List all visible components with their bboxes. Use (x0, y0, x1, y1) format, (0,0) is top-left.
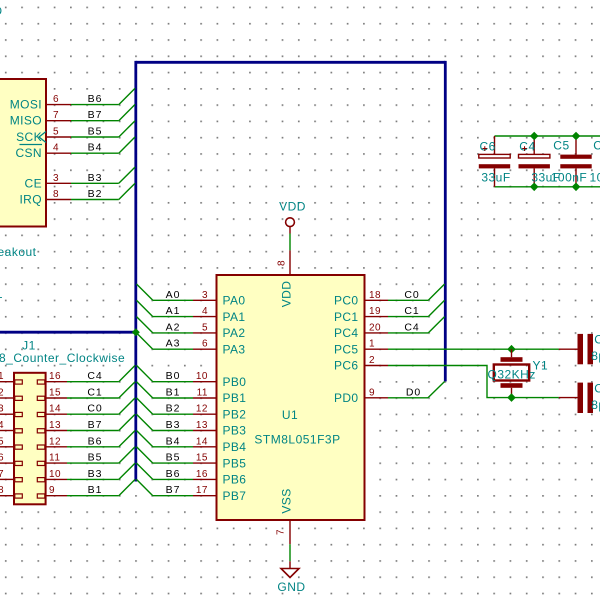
pin 11 PB1 of U1 with wire/net B1 (137, 382, 247, 406)
svg-text:16: 16 (196, 469, 208, 480)
svg-text:B3: B3 (166, 419, 181, 431)
svg-text:C5: C5 (553, 139, 569, 153)
svg-text:11: 11 (197, 388, 208, 399)
svg-text:5: 5 (0, 436, 4, 447)
svg-text:100nF: 100nF (551, 171, 588, 185)
svg-text:3: 3 (53, 173, 59, 184)
svg-text:10: 10 (196, 371, 208, 382)
svg-text:9: 9 (369, 387, 375, 398)
svg-text:15: 15 (49, 388, 61, 399)
pin 16 PB6 of U1 with wire/net B6 (137, 463, 247, 487)
pin 12 PB2 of U1 with wire/net B2 (137, 398, 247, 422)
svg-text:B7: B7 (88, 109, 103, 121)
pin 4 CSN of J2 with wire/net B4 (15, 137, 135, 160)
svg-text:8pF: 8pF (591, 349, 600, 363)
wire cap-bank top rail (495, 135, 600, 137)
svg-text:VDD: VDD (279, 200, 306, 214)
svg-text:16: 16 (49, 371, 61, 382)
svg-text:C4: C4 (87, 370, 102, 382)
svg-text:A3: A3 (166, 338, 181, 350)
svg-text:Q32KHz: Q32KHz (488, 368, 536, 382)
svg-text:8: 8 (53, 189, 59, 200)
pin 2 of J1 (left, cut) (0, 388, 22, 401)
connector J1 (14, 373, 46, 505)
pin 12 of J1 with wire/net B6 (37, 431, 135, 450)
svg-text:+: + (482, 144, 488, 155)
pin 3 of J1 (left, cut) (0, 404, 22, 417)
pin 16 of J1 with wire/net C4 (37, 365, 135, 384)
svg-text:PB5: PB5 (223, 456, 247, 470)
pin 15 of J1 with wire/net C1 (37, 382, 135, 401)
junction C4 top (530, 132, 539, 141)
svg-text:STM8L051F3P: STM8L051F3P (254, 433, 340, 447)
svg-text:14: 14 (49, 404, 61, 415)
svg-text:PB0: PB0 (223, 375, 247, 389)
pin 15 PB5 of U1 with wire/net B5 (137, 447, 247, 471)
svg-text:7: 7 (276, 529, 287, 535)
svg-text:GND: GND (277, 580, 305, 594)
pin 6 PA3 of U1 with wire/net A3 (137, 333, 246, 357)
junction C5 top (572, 132, 581, 141)
connector J2 RF-module breakout (cut off at left edge) (0, 79, 46, 227)
svg-text:4: 4 (53, 143, 59, 154)
svg-text:6: 6 (53, 94, 59, 105)
pin 14 of J1 with wire/net C0 (37, 398, 135, 417)
crystal Y1 Q32KHz (488, 349, 549, 397)
svg-text:B5: B5 (88, 452, 103, 464)
svg-text:B7: B7 (88, 419, 103, 431)
capacitor C3 8pF (cut at right edge) (559, 382, 600, 414)
pin 11 of J1 with wire/net B5 (37, 447, 135, 466)
svg-text:6: 6 (202, 339, 208, 350)
junction C4 bottom (530, 183, 539, 192)
U1 value STM8L051F3P (254, 433, 340, 447)
svg-text:100nF: 100nF (590, 171, 600, 185)
pin 17 PB7 of U1 with wire/net B7 (137, 479, 247, 503)
capacitor C4 33uF (519, 136, 561, 187)
svg-text:PC4: PC4 (334, 326, 359, 340)
svg-text:33uF: 33uF (481, 171, 510, 185)
svg-text:B6: B6 (88, 93, 103, 105)
pin 18 PC0 of U1 with wire/net C0 (334, 284, 445, 308)
capacitor C6 33uF (479, 136, 511, 187)
svg-text:MISO: MISO (10, 114, 42, 128)
pin 19 PC1 of U1 with wire/net C1 (334, 300, 445, 324)
svg-text:8_Counter_Clockwise: 8_Counter_Clockwise (0, 351, 125, 365)
svg-text:17: 17 (196, 485, 208, 496)
svg-text:B2: B2 (88, 188, 103, 200)
pin 4 PA1 of U1 with wire/net A1 (137, 300, 246, 324)
svg-text:B1: B1 (88, 484, 103, 496)
svg-text:13: 13 (49, 420, 61, 431)
capacitor C2 8pF (cut at right edge) (559, 333, 600, 365)
svg-text:C1: C1 (87, 387, 102, 399)
svg-text:B3: B3 (88, 468, 103, 480)
svg-text:10: 10 (49, 469, 61, 480)
bus: branch to left edge (0, 331, 136, 334)
svg-text:B3: B3 (88, 172, 103, 184)
svg-text:B7: B7 (166, 484, 181, 496)
pin 9 of J1 with wire/net B1 (37, 479, 135, 498)
pin 1 PC5 of U1, wire to crystal (334, 339, 559, 357)
svg-text:CE: CE (25, 176, 42, 190)
svg-text:1: 1 (369, 339, 375, 350)
pin 4 of J1 (left, cut) (0, 420, 22, 433)
pin 8 VDD of U1 (277, 250, 294, 307)
svg-text:VDD: VDD (280, 281, 294, 308)
pin 6 MOSI of J2 with wire/net B6 (10, 88, 135, 111)
svg-text:C0: C0 (404, 289, 419, 301)
svg-text:PA0: PA0 (223, 294, 246, 308)
svg-text:15: 15 (196, 453, 208, 464)
clock mark on SCK pin (39, 132, 46, 143)
pin 3 CE of J2 with wire/net B3 (25, 167, 136, 190)
pin 7 VSS of U1 (276, 488, 294, 544)
svg-text:2: 2 (369, 355, 375, 366)
pin 6 of J1 (left, cut) (0, 453, 22, 466)
J1 reference (22, 339, 36, 353)
wire cap-bank bottom rail (495, 186, 600, 188)
svg-text:PA3: PA3 (223, 342, 246, 356)
svg-text:7: 7 (0, 469, 4, 480)
svg-text:B1: B1 (166, 387, 181, 399)
svg-text:8: 8 (0, 485, 4, 496)
svg-text:B4: B4 (166, 435, 181, 447)
svg-text:5: 5 (53, 127, 59, 138)
pin 14 PB4 of U1 with wire/net B4 (137, 431, 247, 455)
svg-text:MOSI: MOSI (10, 98, 42, 112)
pin 8 IRQ of J2 with wire/net B2 (19, 183, 135, 206)
pin 10 of J1 with wire/net B3 (37, 463, 135, 482)
svg-text:IRQ: IRQ (19, 193, 42, 207)
svg-text:PB1: PB1 (223, 391, 247, 405)
pin 13 of J1 with wire/net B7 (37, 414, 135, 433)
pin 5 SCK of J2 with wire/net B5 (16, 121, 135, 144)
svg-text:PD0: PD0 (334, 391, 359, 405)
svg-text:4: 4 (202, 306, 208, 317)
svg-text:2: 2 (0, 388, 4, 399)
svg-text:D: D (0, 4, 3, 18)
svg-text:11: 11 (49, 453, 60, 464)
svg-text:PA2: PA2 (223, 326, 246, 340)
svg-text:B6: B6 (88, 435, 103, 447)
J2 value text Breakout (cut) (0, 245, 37, 259)
svg-text:3: 3 (0, 404, 4, 415)
pin 8 of J1 (left, cut) (0, 485, 22, 498)
svg-text:PB3: PB3 (223, 424, 247, 438)
svg-text:C4: C4 (404, 321, 419, 333)
pin 3 PA0 of U1 with wire/net A0 (137, 284, 246, 308)
svg-text:14: 14 (196, 436, 208, 447)
svg-text:B6: B6 (166, 468, 181, 480)
svg-text:B4: B4 (88, 142, 103, 154)
svg-text:5: 5 (202, 322, 208, 333)
svg-text:CSN: CSN (15, 146, 42, 160)
svg-text:PB4: PB4 (223, 440, 247, 454)
pin 9 PD0 of U1 with wire/net D0 (334, 382, 445, 406)
wire VDD to U1 pin 8 (289, 234, 291, 251)
svg-text:12: 12 (196, 404, 208, 415)
junction crystal top (507, 345, 516, 354)
bus: main data bus (136, 61, 446, 482)
svg-text:19: 19 (369, 306, 381, 317)
pin 1 of J1 (left, cut) (0, 371, 22, 384)
svg-text:PB7: PB7 (223, 489, 247, 503)
overline of CSN pin name (20, 144, 43, 146)
leftover label fragment top-left corner (0, 4, 3, 18)
svg-text:Breakout: Breakout (0, 245, 37, 259)
pin 20 PC4 of U1 with wire/net C4 (334, 317, 445, 341)
pin 7 of J1 (left, cut) (0, 469, 22, 482)
svg-text:C2: C2 (594, 333, 600, 347)
U1 reference (282, 408, 298, 422)
svg-text:A2: A2 (166, 321, 181, 333)
svg-text:1: 1 (0, 287, 3, 301)
capacitor C? (cut off at right edge) (590, 139, 600, 185)
svg-text:PC5: PC5 (334, 342, 359, 356)
svg-text:4: 4 (0, 420, 4, 431)
svg-text:6: 6 (0, 453, 4, 464)
junction bus branch (132, 328, 140, 336)
svg-text:8pF: 8pF (591, 398, 600, 412)
svg-text:18: 18 (369, 290, 381, 301)
junction C5 bottom (572, 183, 581, 192)
svg-text:D0: D0 (406, 386, 421, 398)
J1 value 8_Counter_Clockwise (cut) (0, 351, 125, 365)
svg-text:B0: B0 (166, 370, 181, 382)
svg-text:C7: C7 (593, 139, 600, 153)
svg-text:B5: B5 (166, 452, 181, 464)
svg-text:VSS: VSS (280, 488, 294, 513)
svg-text:9: 9 (49, 485, 55, 496)
svg-text:+: + (522, 144, 528, 155)
svg-text:PC0: PC0 (334, 294, 359, 308)
svg-text:7: 7 (53, 110, 59, 121)
pin 10 PB0 of U1 with wire/net B0 (137, 365, 247, 389)
capacitor C5 100nF (551, 136, 592, 187)
svg-text:B2: B2 (166, 403, 181, 415)
svg-text:PA1: PA1 (223, 310, 246, 324)
svg-text:8: 8 (277, 260, 288, 266)
junction crystal bottom (507, 393, 516, 402)
svg-text:U1: U1 (282, 408, 298, 422)
svg-text:13: 13 (196, 420, 208, 431)
ground symbol GND (277, 561, 305, 594)
power flag VDD (279, 200, 306, 234)
svg-text:B5: B5 (88, 126, 103, 138)
pin 5 PA2 of U1 with wire/net A2 (137, 317, 246, 341)
mcu U1 STM8L051F3P body (217, 275, 365, 520)
leftover label fragment at left edge (0, 287, 3, 301)
svg-text:PB2: PB2 (223, 407, 247, 421)
svg-text:A1: A1 (166, 305, 181, 317)
svg-text:PB6: PB6 (223, 473, 247, 487)
svg-text:C0: C0 (87, 403, 102, 415)
svg-text:C3: C3 (594, 382, 600, 396)
svg-text:PC6: PC6 (334, 359, 359, 373)
pin 7 MISO of J2 with wire/net B7 (10, 104, 135, 127)
pin 2 PC6 of U1, wire to crystal bottom (334, 355, 559, 398)
pin 13 PB3 of U1 with wire/net B3 (137, 414, 247, 438)
svg-text:A0: A0 (166, 289, 181, 301)
wire VSS to GND (289, 544, 291, 561)
svg-text:C1: C1 (404, 305, 419, 317)
svg-text:12: 12 (49, 436, 61, 447)
svg-text:PC1: PC1 (334, 310, 359, 324)
svg-text:3: 3 (202, 290, 208, 301)
pin 5 of J1 (left, cut) (0, 436, 22, 449)
svg-text:1: 1 (0, 371, 4, 382)
svg-text:20: 20 (369, 322, 381, 333)
